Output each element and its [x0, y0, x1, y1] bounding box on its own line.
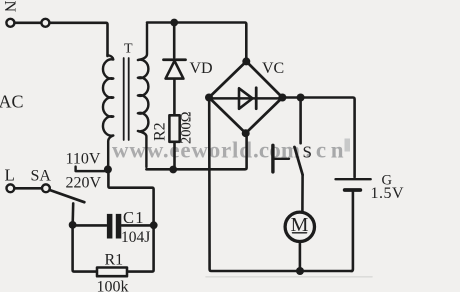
terminal circle N1	[6, 19, 14, 27]
wire VD to R2	[173, 80, 176, 115]
svg-text:100k: 100k	[97, 279, 129, 292]
wire N1-N2	[15, 21, 41, 24]
wire AC2 horizontal to bridge bottom	[146, 135, 246, 169]
wire switch to motor	[301, 175, 304, 211]
motor M circle	[285, 212, 314, 241]
wire secondary top to bridge	[147, 23, 246, 59]
wire N to transformer primary top	[50, 23, 108, 56]
node S branch junction	[297, 94, 305, 102]
diode VD triangle	[166, 61, 184, 79]
wire R1 left	[73, 227, 96, 272]
svg-text:1.5V: 1.5V	[371, 185, 405, 202]
resistor R2	[169, 115, 179, 142]
wire C1 left	[74, 224, 106, 227]
capacitor C1 right plate	[116, 214, 122, 239]
wire junction down to switch S	[299, 100, 302, 144]
svg-text:VD: VD	[190, 60, 213, 77]
svg-text:N: N	[1, 1, 18, 13]
svg-text:L: L	[5, 166, 15, 185]
wire DC plus: bridge right vertex to battery	[285, 98, 355, 178]
scan ghost line under bottom rail	[206, 276, 372, 278]
switch S contact arm	[275, 158, 290, 160]
battery G long plate	[336, 178, 371, 180]
svg-text:SA: SA	[31, 168, 52, 185]
switch SA blade	[50, 190, 85, 202]
transformer core line 2	[128, 58, 130, 140]
switch S blade	[295, 147, 303, 175]
svg-text:110V: 110V	[66, 151, 101, 168]
svg-text:104J: 104J	[121, 229, 150, 246]
transformer core line 1	[123, 58, 125, 140]
wire L to SA	[15, 187, 42, 190]
wire C1 right	[122, 224, 152, 227]
wire R1 right	[129, 227, 154, 272]
svg-text:R1: R1	[105, 252, 124, 269]
wire primary bottom to C1 right branch	[108, 171, 153, 223]
diode VD cathode bar	[164, 58, 186, 61]
svg-text:S: S	[303, 142, 312, 161]
watermark artifact blob	[345, 139, 351, 152]
wire battery minus down to rail	[351, 192, 353, 271]
motor underline	[293, 232, 307, 234]
node C1 right	[150, 221, 158, 229]
wire motor to rail	[299, 242, 302, 269]
bridge rectifier VC diamond	[209, 61, 282, 133]
wire SA to C1 node	[71, 203, 74, 223]
svg-text:VC: VC	[262, 60, 284, 77]
node bridge right	[278, 94, 286, 102]
bridge diode cathode bar	[255, 88, 258, 109]
switch SA pivot circle	[42, 184, 50, 192]
svg-text:AC: AC	[0, 92, 24, 112]
resistor R1	[97, 268, 127, 277]
svg-text:C1: C1	[123, 208, 145, 227]
switch S contact bar	[271, 145, 274, 172]
transformer T secondary winding	[138, 24, 148, 167]
node C1 left	[69, 221, 77, 229]
110V tap stub	[76, 167, 105, 172]
node bridge top	[242, 57, 250, 65]
node bridge left	[205, 94, 213, 102]
svg-text:220V: 220V	[66, 175, 102, 192]
node primary bottom junction	[104, 165, 112, 173]
capacitor C1 left plate	[107, 214, 113, 239]
wire R2 to AC2 node	[173, 142, 176, 167]
node AC2	[169, 166, 177, 174]
node bridge bottom	[242, 129, 250, 137]
wire junction to VD	[173, 24, 176, 58]
battery G short plate	[345, 188, 361, 192]
terminal circle L	[6, 184, 14, 192]
svg-text:200Ω: 200Ω	[179, 111, 195, 144]
svg-text:R2: R2	[152, 122, 169, 141]
wire DC minus: bridge left vertex down and bottom rail	[209, 100, 352, 272]
bridge diode triangle	[239, 88, 253, 109]
svg-text:T: T	[124, 42, 133, 57]
node motor bottom rail	[296, 267, 304, 275]
transformer T primary winding	[103, 55, 113, 166]
node VD top junction	[170, 19, 178, 27]
bridge diode line	[210, 97, 281, 99]
terminal circle N2	[41, 19, 49, 27]
